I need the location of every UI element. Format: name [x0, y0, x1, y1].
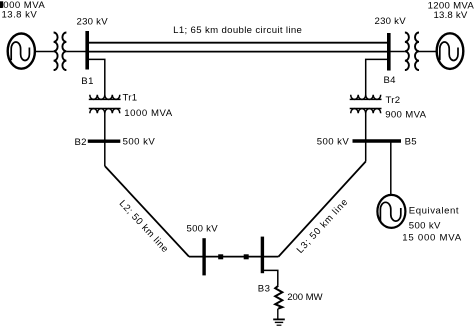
wire resistor to ground — [277, 309, 279, 320]
bus 500 kV (bottom) — [202, 238, 205, 275]
bottom horizontal wire — [189, 256, 279, 258]
svg-text:L1; 65 km double circuit line: L1; 65 km double circuit line — [173, 25, 302, 36]
ground — [273, 319, 285, 325]
svg-text:Equivalent: Equivalent — [409, 205, 459, 216]
svg-text:900 MVA: 900 MVA — [385, 110, 426, 121]
svg-text:500 kV: 500 kV — [123, 136, 156, 147]
svg-text:230 kV: 230 kV — [77, 17, 109, 28]
transformer Tr1 winding 2 — [90, 109, 120, 114]
line L2 diagonal — [105, 166, 189, 257]
svg-text:500 kV: 500 kV — [409, 221, 441, 232]
svg-text:500 kV: 500 kV — [187, 224, 219, 235]
transformer Tr1 winding 1 — [90, 95, 120, 100]
svg-text:Tr2: Tr2 — [386, 95, 401, 106]
svg-text:B4: B4 — [384, 75, 397, 86]
resistor 200 MW — [275, 286, 282, 309]
svg-text:B5: B5 — [405, 137, 417, 148]
wire B1 to Tr1 — [87, 59, 105, 95]
line L1 bottom conductor — [87, 51, 389, 53]
wire L3 to bus B5 — [365, 141, 367, 162]
wire Tr2 to bus B5 — [365, 113, 367, 141]
bus B1 — [85, 31, 89, 70]
svg-text:230 kV: 230 kV — [375, 16, 407, 27]
transformer (gen step-up, left) winding 1 — [54, 33, 58, 71]
transformer Tr2 winding 1 — [351, 95, 381, 100]
svg-text:500 kV: 500 kV — [317, 137, 350, 148]
wire transformer to generator G2 — [419, 51, 436, 53]
equivalent source — [377, 195, 405, 228]
svg-text:13.8 kV: 13.8 kV — [434, 10, 468, 21]
wire G1 to transformer — [36, 51, 54, 53]
wire B4 to Tr2 — [366, 59, 389, 95]
wire bus B4 to transformer — [389, 51, 405, 53]
svg-text:1000 MVA: 1000 MVA — [124, 108, 173, 119]
svg-text:13.8 kV: 13.8 kV — [2, 9, 38, 20]
bus B4 — [387, 33, 391, 71]
generator G2 — [437, 33, 464, 69]
generator G1 — [8, 34, 35, 69]
line L3 diagonal — [279, 162, 366, 257]
svg-text:Tr1: Tr1 — [123, 93, 138, 104]
transformer (gen step-up, left) winding 2 — [62, 33, 66, 71]
breaker square 2 — [244, 254, 249, 259]
svg-text:B3: B3 — [258, 283, 271, 294]
wire B3 to load — [262, 270, 277, 285]
bus B5 — [353, 139, 402, 142]
bus B3 — [261, 237, 264, 274]
svg-text:B2: B2 — [75, 137, 87, 148]
svg-text:15 000 MVA: 15 000 MVA — [402, 232, 462, 243]
svg-text:B1: B1 — [81, 76, 94, 87]
wire B5 to equivalent source — [390, 141, 392, 194]
transformer Tr2 winding 2 — [351, 109, 381, 114]
svg-text:200 MW: 200 MW — [287, 292, 323, 303]
wire B2 down — [104, 141, 106, 166]
line L1 top conductor — [87, 42, 389, 44]
wire Tr1 to bus B2 — [104, 113, 106, 141]
generator G1 label 1000 MVA — [0, 1, 3, 8]
bus B2 — [88, 139, 121, 142]
transformer (gen step-up, right) winding 1 — [405, 33, 409, 71]
transformer (gen step-up, right) winding 2 — [415, 33, 419, 71]
breaker square 1 — [218, 254, 223, 259]
wire transformer to bus B1 — [66, 51, 87, 53]
